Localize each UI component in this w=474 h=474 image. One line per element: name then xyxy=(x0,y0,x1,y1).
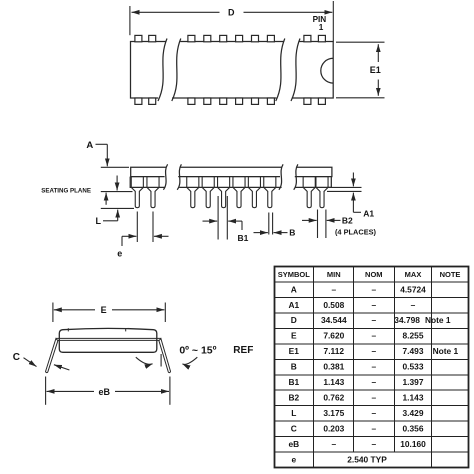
svg-text:34.798: 34.798 xyxy=(394,315,420,325)
svg-text:0º ~ 15º: 0º ~ 15º xyxy=(179,344,216,356)
svg-text:SYMBOL: SYMBOL xyxy=(278,270,311,279)
svg-text:NOTE: NOTE xyxy=(440,270,461,279)
svg-text:–: – xyxy=(371,346,376,356)
svg-text:0.508: 0.508 xyxy=(323,300,344,310)
svg-text:10.160: 10.160 xyxy=(400,439,426,449)
svg-text:eB: eB xyxy=(288,439,299,449)
svg-text:7.493: 7.493 xyxy=(403,346,424,356)
svg-text:7.620: 7.620 xyxy=(323,331,344,341)
svg-text:A: A xyxy=(291,284,297,294)
svg-text:C: C xyxy=(291,424,297,434)
svg-text:A1: A1 xyxy=(363,208,374,218)
svg-text:MIN: MIN xyxy=(327,270,341,279)
svg-text:–: – xyxy=(411,300,416,310)
svg-text:0.762: 0.762 xyxy=(323,393,344,403)
svg-text:–: – xyxy=(371,393,376,403)
svg-text:L: L xyxy=(96,216,102,226)
svg-text:Note 1: Note 1 xyxy=(433,346,459,356)
svg-text:B: B xyxy=(291,362,297,372)
svg-text:–: – xyxy=(371,284,376,294)
svg-text:E: E xyxy=(291,331,297,341)
svg-text:1.143: 1.143 xyxy=(403,393,424,403)
svg-text:B2: B2 xyxy=(342,216,353,226)
svg-text:e: e xyxy=(117,248,122,258)
svg-text:4.5724: 4.5724 xyxy=(400,284,426,294)
svg-text:0.203: 0.203 xyxy=(323,424,344,434)
svg-text:D: D xyxy=(291,315,297,325)
svg-text:–: – xyxy=(371,408,376,418)
svg-text:0.381: 0.381 xyxy=(323,362,344,372)
svg-text:0.356: 0.356 xyxy=(403,424,424,434)
svg-text:2.540 TYP: 2.540 TYP xyxy=(347,454,387,464)
svg-text:e: e xyxy=(291,454,296,464)
svg-text:B: B xyxy=(289,228,295,238)
svg-text:C: C xyxy=(13,352,20,363)
svg-text:Note 1: Note 1 xyxy=(425,315,451,325)
svg-text:E1: E1 xyxy=(370,65,381,75)
svg-text:B1: B1 xyxy=(288,377,299,387)
svg-text:D: D xyxy=(228,8,235,18)
svg-text:NOM: NOM xyxy=(365,270,383,279)
svg-text:A: A xyxy=(86,140,93,151)
svg-text:L: L xyxy=(291,408,296,418)
svg-text:B2: B2 xyxy=(288,393,299,403)
svg-text:A1: A1 xyxy=(288,300,299,310)
svg-text:E1: E1 xyxy=(289,346,300,356)
svg-text:–: – xyxy=(371,439,376,449)
svg-text:MAX: MAX xyxy=(405,270,422,279)
svg-text:1.397: 1.397 xyxy=(403,377,424,387)
svg-text:–: – xyxy=(371,331,376,341)
svg-text:–: – xyxy=(371,362,376,372)
svg-text:8.255: 8.255 xyxy=(403,331,424,341)
svg-text:1: 1 xyxy=(319,23,324,32)
svg-text:0.533: 0.533 xyxy=(403,362,424,372)
svg-text:3.175: 3.175 xyxy=(323,408,344,418)
svg-text:eB: eB xyxy=(98,387,110,397)
svg-text:–: – xyxy=(371,377,376,387)
svg-text:1.143: 1.143 xyxy=(323,377,344,387)
svg-text:–: – xyxy=(371,424,376,434)
svg-text:SEATING PLANE: SEATING PLANE xyxy=(41,188,91,195)
svg-text:(4 PLACES): (4 PLACES) xyxy=(335,227,377,236)
svg-text:REF: REF xyxy=(233,345,253,356)
svg-text:–: – xyxy=(371,315,376,325)
svg-text:–: – xyxy=(331,439,336,449)
svg-text:–: – xyxy=(331,284,336,294)
svg-text:E: E xyxy=(101,305,107,315)
svg-text:7.112: 7.112 xyxy=(324,346,345,356)
svg-text:–: – xyxy=(371,300,376,310)
svg-text:3.429: 3.429 xyxy=(403,408,424,418)
svg-text:34.544: 34.544 xyxy=(321,315,347,325)
svg-text:B1: B1 xyxy=(237,233,248,243)
